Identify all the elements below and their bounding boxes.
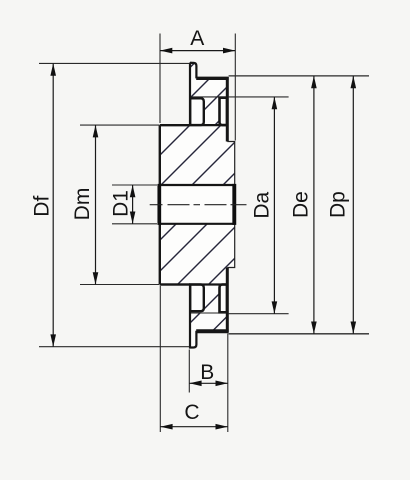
right step top (227, 142, 234, 186)
tooth step block bottom (220, 285, 228, 313)
Da extension top (229, 96, 289, 98)
Df dimension line (52, 63, 54, 346)
dimension A extension line left (159, 34, 161, 124)
C extension left (159, 286, 161, 432)
D1 arrows (130, 185, 136, 197)
D1 dimension line (132, 185, 134, 224)
Df arrows (50, 63, 56, 75)
De/Dp extension bottom (229, 333, 369, 335)
rim top edge thick (196, 77, 228, 80)
Dm extension top (80, 124, 159, 126)
dimension A line (160, 50, 235, 52)
dimension A extension line right (234, 34, 236, 141)
right step bottom (227, 224, 234, 268)
B/C extension right (227, 334, 229, 433)
Da arrows (272, 97, 278, 109)
D1 extension bottom (112, 223, 157, 225)
bore right bar (232, 184, 236, 225)
Da dimension line (273, 97, 275, 314)
B dimension line (189, 382, 228, 384)
section hatching: tooth band + crimp gap (top) (158, 61, 266, 131)
section hatching: crimp gap + tooth band (bottom) (178, 277, 236, 336)
bore top edge (159, 184, 234, 186)
Df extension top (39, 62, 189, 64)
pulley body silhouette (160, 63, 235, 348)
flange crimp groove top (190, 98, 204, 125)
B arrows (189, 381, 201, 387)
flange crimp groove bottom (190, 285, 204, 312)
bore left bar (157, 184, 161, 225)
centerline (150, 204, 247, 206)
Dp dimension line (352, 76, 354, 334)
svg-text:Dm: Dm (71, 188, 94, 221)
De arrows (311, 76, 317, 88)
Dp arrows (351, 76, 357, 88)
tooth root line bottom (190, 312, 227, 314)
rim bottom edge thick (196, 329, 228, 333)
hub left face (159, 125, 161, 284)
svg-text:De: De (290, 191, 313, 218)
Dm arrows (93, 125, 99, 137)
rim right face bottom (226, 268, 229, 333)
hub OD line top (160, 124, 228, 126)
tooth root line top (190, 96, 227, 98)
part outline (190, 63, 196, 79)
svg-text:Da: Da (251, 191, 274, 218)
Df extension bottom (39, 346, 189, 348)
C arrows (160, 424, 172, 430)
flange top cap (190, 63, 192, 125)
Dm extension bottom (80, 284, 159, 286)
Da extension bottom (229, 313, 289, 315)
svg-text:D1: D1 (109, 190, 132, 217)
dimension A arrows (160, 48, 172, 54)
De/Dp extension top (229, 75, 369, 77)
bore bottom edge (159, 223, 234, 225)
svg-text:B: B (200, 361, 214, 384)
D1 extension top (112, 184, 157, 186)
B extension left (188, 350, 190, 393)
svg-text:A: A (190, 27, 204, 50)
flange bottom cap (190, 285, 196, 348)
tooth step block top (220, 98, 228, 125)
svg-text:C: C (184, 401, 199, 424)
bore band (158, 186, 237, 223)
section hatching: hub block top (125, 118, 290, 190)
section hatching: hub block bottom (111, 217, 276, 289)
svg-text:Dp: Dp (326, 191, 349, 218)
rim right face top (226, 77, 229, 142)
De dimension line (313, 76, 315, 334)
Dm dimension line (95, 125, 97, 284)
hub OD line bottom (160, 283, 228, 285)
svg-text:Df: Df (30, 196, 53, 217)
hub bottom edge (160, 283, 190, 285)
C dimension line (160, 426, 228, 428)
hub top edge (160, 124, 190, 126)
